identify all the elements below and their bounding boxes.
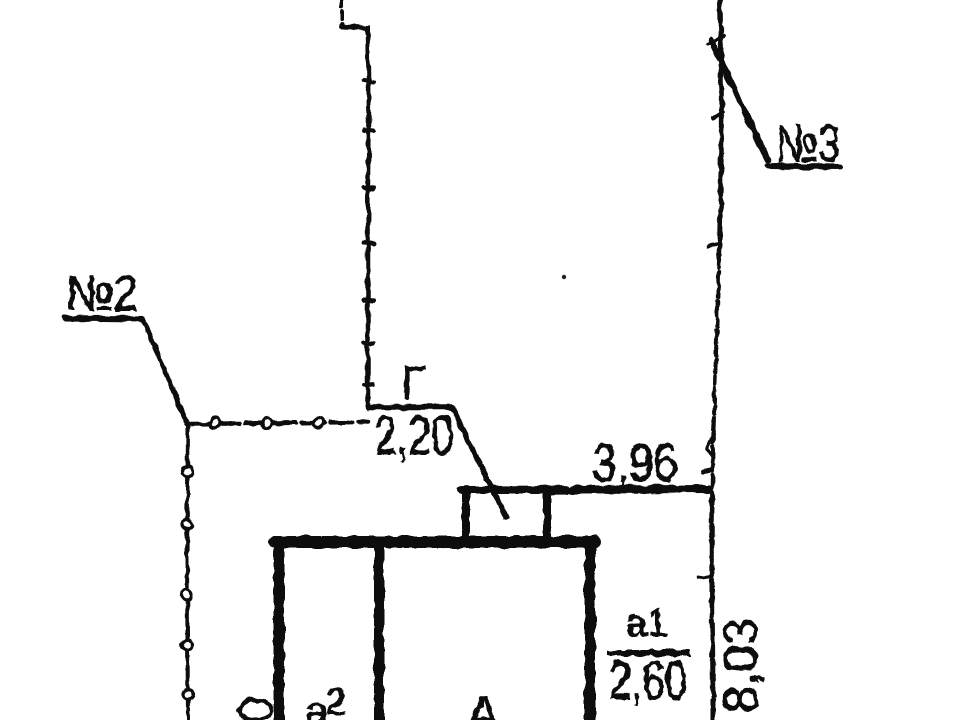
boundary tick x1	[707, 36, 724, 44]
svg-text:8,03: 8,03	[715, 618, 768, 713]
boundary hook x4	[707, 438, 712, 456]
node No3 underline	[768, 166, 840, 167]
fence circle v1	[183, 467, 193, 477]
building top wall	[274, 536, 595, 548]
fence circle v2	[182, 519, 192, 529]
porch right wall	[543, 491, 551, 543]
node No2 underline	[65, 318, 143, 319]
fence tick y187	[364, 187, 374, 188]
svg-text:3,96: 3,96	[592, 433, 678, 493]
fence tick y300	[364, 300, 374, 301]
svg-text:№3: №3	[776, 115, 840, 173]
fence dotted horizontal left	[190, 422, 368, 424]
fence line vertical center	[368, 32, 369, 408]
leader No3 diagonal	[711, 40, 768, 160]
boundary tick x6	[698, 576, 710, 578]
fence vertical left	[187, 425, 188, 720]
wire top boundary stub	[340, 0, 344, 26]
fence circle h1	[210, 418, 220, 428]
leader G diagonal	[452, 408, 506, 517]
boundary tick x5	[703, 470, 712, 472]
stray dot 1	[562, 275, 566, 279]
fence circle h2	[262, 418, 272, 428]
wire top jog horizontal	[342, 27, 368, 34]
building interior wall	[374, 546, 384, 720]
fence tick y384	[364, 384, 373, 385]
boundary line right lower	[712, 500, 713, 720]
leader No2 diagonal	[143, 320, 188, 425]
fence circle h3	[313, 418, 323, 428]
fence circle v3	[182, 590, 192, 600]
fence circle v5	[183, 689, 193, 699]
svg-text:2,20: 2,20	[374, 404, 454, 466]
boundary tick x2	[713, 112, 723, 118]
fence tick y343	[364, 343, 373, 344]
porch left wall	[462, 489, 470, 543]
svg-text:а1: а1	[626, 603, 668, 645]
boundary line right middle	[712, 260, 719, 500]
svg-text:2,60: 2,60	[609, 649, 687, 711]
svg-text:А: А	[466, 686, 501, 720]
fence tick y130	[364, 130, 374, 131]
cellar ellipse symbol	[239, 700, 271, 720]
porch top edge	[462, 486, 551, 494]
leader corner G horizontal	[368, 404, 452, 410]
svg-text:2: 2	[325, 680, 347, 720]
fence circle v4	[182, 640, 192, 650]
svg-text:Г: Г	[401, 357, 426, 409]
boundary line right upper	[719, 0, 721, 260]
building left wall	[274, 542, 285, 720]
svg-text:№2: №2	[66, 267, 138, 321]
building right wall	[585, 546, 596, 720]
fence tick y80	[364, 80, 373, 82]
fence tick y243	[363, 243, 374, 244]
boundary tick x3	[708, 244, 720, 246]
dimension line 3,96	[464, 489, 709, 490]
fraction bar a1	[607, 650, 690, 656]
